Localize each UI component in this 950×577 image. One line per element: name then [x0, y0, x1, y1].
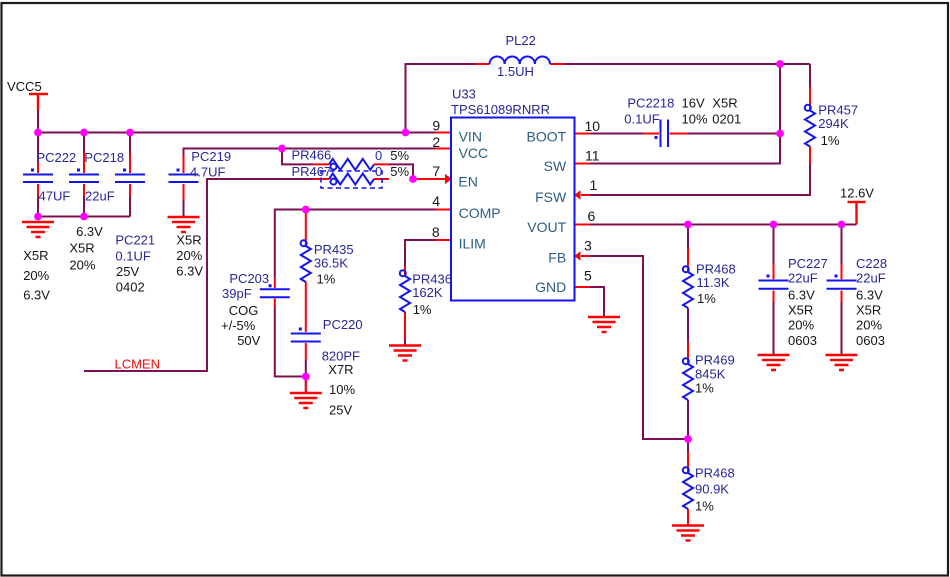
svg-text:1%: 1%: [697, 291, 716, 306]
svg-text:845K: 845K: [695, 367, 726, 382]
svg-text:0: 0: [375, 148, 382, 163]
svg-text:10%: 10%: [329, 382, 355, 397]
svg-text:4.7UF: 4.7UF: [190, 165, 225, 180]
svg-text:SW: SW: [544, 158, 567, 174]
svg-text:39pF: 39pF: [222, 286, 252, 301]
svg-text:0201: 0201: [712, 111, 741, 126]
svg-text:LCMEN: LCMEN: [115, 357, 161, 372]
svg-text:1: 1: [590, 177, 598, 193]
svg-text:6.3V: 6.3V: [788, 287, 815, 302]
svg-text:90.9K: 90.9K: [695, 482, 729, 497]
svg-text:6.3V: 6.3V: [176, 264, 203, 279]
svg-text:TPS61089RNRR: TPS61089RNRR: [451, 102, 550, 117]
svg-text:ILIM: ILIM: [459, 236, 486, 252]
svg-text:0.1UF: 0.1UF: [115, 249, 150, 264]
svg-text:1%: 1%: [317, 271, 336, 286]
svg-text:PC222: PC222: [37, 150, 77, 165]
svg-text:X5R: X5R: [23, 248, 48, 263]
svg-text:+/-5%: +/-5%: [221, 318, 256, 333]
svg-text:X5R: X5R: [69, 240, 94, 255]
svg-text:10: 10: [585, 118, 601, 134]
svg-text:0: 0: [375, 164, 382, 179]
svg-text:0603: 0603: [788, 333, 817, 348]
svg-text:7: 7: [432, 163, 440, 179]
svg-text:0402: 0402: [116, 280, 145, 295]
svg-text:1%: 1%: [413, 302, 432, 317]
svg-text:PC2218: PC2218: [627, 96, 674, 111]
svg-text:PR469: PR469: [695, 353, 735, 368]
svg-text:PR468: PR468: [695, 466, 735, 481]
svg-text:0.1UF: 0.1UF: [624, 111, 659, 126]
svg-text:5%: 5%: [390, 148, 409, 163]
svg-text:20%: 20%: [788, 318, 814, 333]
svg-text:VOUT: VOUT: [527, 219, 566, 235]
svg-text:25V: 25V: [116, 264, 139, 279]
svg-text:22uF: 22uF: [788, 271, 818, 286]
svg-text:X5R: X5R: [856, 303, 881, 318]
svg-text:22uF: 22uF: [85, 189, 115, 204]
svg-text:10%: 10%: [682, 111, 708, 126]
svg-text:PC227: PC227: [788, 256, 828, 271]
svg-text:6.3V: 6.3V: [23, 288, 50, 303]
svg-text:1%: 1%: [695, 381, 714, 396]
svg-text:C228: C228: [856, 256, 887, 271]
svg-text:COMP: COMP: [459, 205, 501, 221]
svg-text:2: 2: [432, 134, 440, 150]
svg-text:162K: 162K: [412, 285, 443, 300]
svg-text:X5R: X5R: [788, 303, 813, 318]
svg-text:1%: 1%: [821, 133, 840, 148]
svg-text:EN: EN: [458, 174, 477, 190]
svg-text:FB: FB: [548, 250, 566, 266]
svg-text:VCC5: VCC5: [7, 79, 42, 94]
svg-text:X7R: X7R: [328, 362, 353, 377]
svg-text:20%: 20%: [176, 248, 202, 263]
svg-text:16V: 16V: [682, 96, 705, 111]
svg-text:47UF: 47UF: [39, 189, 71, 204]
svg-text:FSW: FSW: [535, 189, 567, 205]
svg-text:6: 6: [588, 208, 596, 224]
svg-text:PC220: PC220: [323, 317, 363, 332]
svg-text:GND: GND: [535, 279, 566, 295]
svg-text:11.3K: 11.3K: [697, 275, 730, 290]
svg-text:PC218: PC218: [84, 150, 124, 165]
svg-text:12.6V: 12.6V: [840, 186, 874, 201]
svg-text:9: 9: [432, 118, 440, 134]
svg-text:1.5UH: 1.5UH: [497, 64, 534, 79]
svg-text:20%: 20%: [23, 268, 49, 283]
svg-text:PC203: PC203: [229, 271, 269, 286]
svg-text:8: 8: [432, 224, 440, 240]
svg-text:25V: 25V: [329, 402, 352, 417]
svg-text:1%: 1%: [695, 499, 714, 514]
svg-text:X5R: X5R: [176, 233, 201, 248]
svg-text:PR466: PR466: [292, 148, 332, 163]
svg-text:PL22: PL22: [506, 33, 536, 48]
svg-text:4: 4: [432, 193, 440, 209]
svg-text:VCC: VCC: [459, 145, 489, 161]
svg-text:5: 5: [584, 267, 592, 283]
svg-text:20%: 20%: [856, 318, 882, 333]
svg-text:50V: 50V: [237, 333, 260, 348]
svg-text:PC219: PC219: [191, 149, 231, 164]
svg-text:PR467: PR467: [292, 164, 332, 179]
svg-text:COG: COG: [229, 303, 259, 318]
svg-text:VIN: VIN: [459, 129, 482, 145]
svg-text:PC221: PC221: [115, 232, 155, 247]
svg-text:20%: 20%: [69, 257, 95, 272]
svg-text:3: 3: [584, 237, 592, 253]
svg-text:22uF: 22uF: [856, 271, 886, 286]
svg-text:294K: 294K: [818, 116, 849, 131]
svg-text:5%: 5%: [390, 164, 409, 179]
svg-text:0603: 0603: [856, 333, 885, 348]
svg-text:X5R: X5R: [712, 96, 737, 111]
svg-text:BOOT: BOOT: [527, 129, 567, 145]
svg-text:11: 11: [585, 147, 600, 163]
svg-text:36.5K: 36.5K: [314, 255, 348, 270]
svg-text:6.3V: 6.3V: [856, 287, 883, 302]
svg-text:6.3V: 6.3V: [76, 224, 103, 239]
svg-text:U33: U33: [452, 86, 476, 101]
